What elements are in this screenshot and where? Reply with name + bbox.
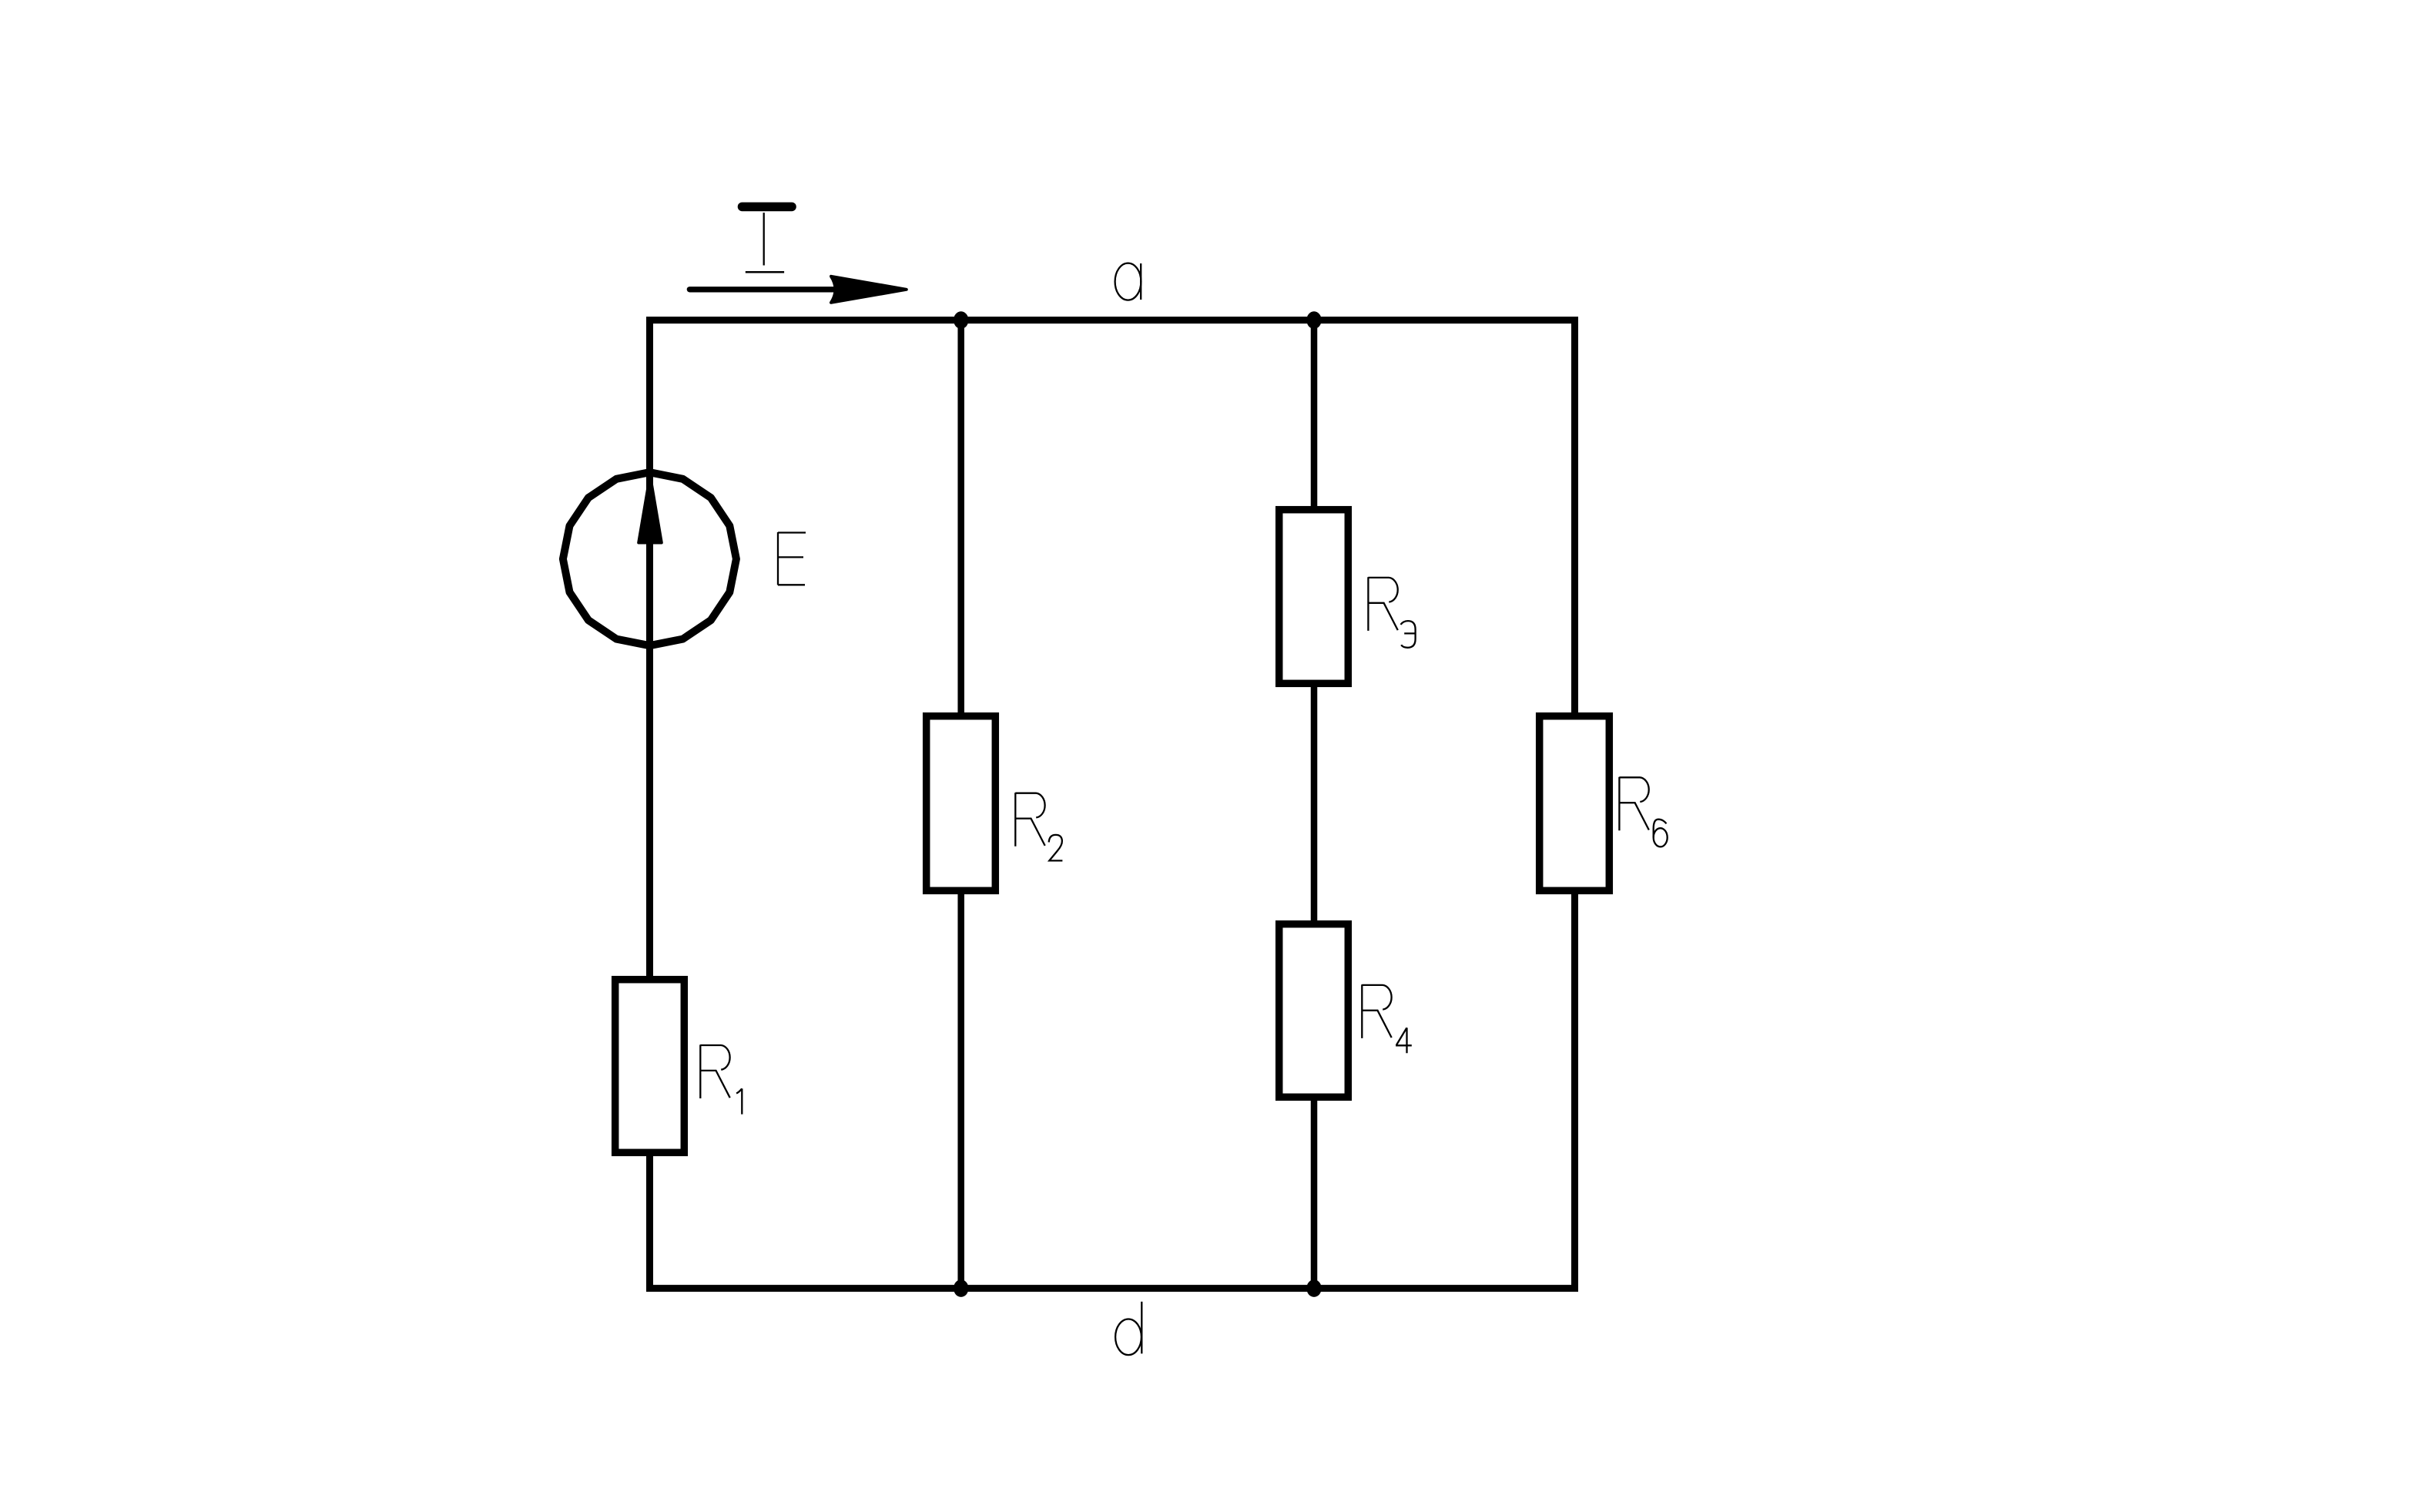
voltage source E circle xyxy=(563,472,736,645)
resistor R3 (Rэ) xyxy=(1279,510,1349,684)
resistor R6 xyxy=(1540,716,1610,891)
label d (node d) xyxy=(1115,1302,1141,1355)
node a junction dot (R3 branch, top) xyxy=(1306,311,1321,329)
resistor R1 xyxy=(615,980,685,1153)
wire R3/R4 branch vertical xyxy=(1311,320,1318,1289)
node a junction dot (R2 branch, top) xyxy=(954,311,968,329)
wire R2 branch vertical xyxy=(957,320,964,1289)
label E xyxy=(778,532,806,585)
label R3 (Rэ) xyxy=(1368,577,1397,631)
label R4 xyxy=(1362,984,1391,1038)
label a (node a) xyxy=(1115,263,1141,300)
current I arrow xyxy=(689,277,906,303)
node d junction dot (R2 branch, bottom) xyxy=(954,1279,968,1297)
resistor R4 xyxy=(1279,924,1349,1098)
resistor R2 xyxy=(927,716,996,891)
label R1 xyxy=(700,1044,729,1098)
label R6 xyxy=(1619,777,1648,831)
label I (current) xyxy=(743,206,793,272)
node d junction dot (R3 branch, bottom) xyxy=(1306,1279,1321,1297)
voltage source arrow (EMF direction, pointing up) xyxy=(639,476,662,543)
wire outer loop (top bus a, right branch, bottom bus d, left branch) xyxy=(650,320,1575,1289)
label R2 xyxy=(1015,793,1044,847)
